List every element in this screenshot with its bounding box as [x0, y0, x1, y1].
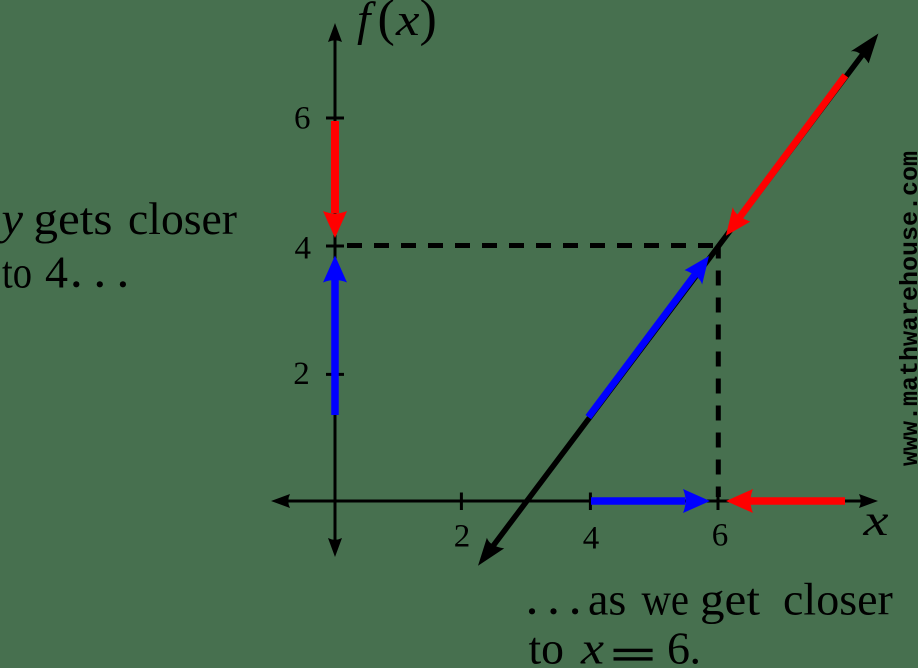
- function line upper-right arrowhead: [851, 34, 879, 64]
- x tick 4: [589, 493, 592, 511]
- red arrow on x-axis (right toward 6): [726, 489, 845, 513]
- svg-text:as: as: [588, 574, 626, 625]
- y tick 2: [326, 373, 344, 376]
- x-axis horizontal line: [286, 500, 863, 503]
- svg-text:we: we: [642, 574, 690, 625]
- dashed line x=6: [716, 248, 721, 498]
- y tick 6: [326, 117, 344, 120]
- x tick 2: [460, 493, 463, 511]
- bottom caption "...as we get closer / to x = 6.": [529, 574, 893, 668]
- red arrow on the line (down-left toward (6,4)): [726, 75, 846, 235]
- svg-text:x: x: [862, 496, 889, 545]
- svg-text:y: y: [0, 193, 24, 244]
- svg-text:6: 6: [712, 518, 729, 554]
- svg-text:x: x: [395, 0, 420, 45]
- svg-text:to: to: [2, 247, 32, 298]
- function line lower-left arrowhead: [478, 538, 504, 566]
- y tick 4: [326, 245, 344, 248]
- svg-text:6: 6: [294, 101, 311, 137]
- dashed line y=4: [347, 243, 717, 248]
- axis title f(x): [357, 0, 437, 47]
- svg-text:(: (: [378, 0, 395, 47]
- blue arrow on the line (up-right toward (6,4)): [588, 256, 709, 417]
- svg-text:2: 2: [293, 356, 310, 392]
- svg-text:gets: gets: [34, 193, 113, 244]
- svg-text:): ): [420, 0, 437, 47]
- svg-text:4: 4: [45, 247, 68, 298]
- svg-text:2: 2: [454, 519, 471, 555]
- svg-text:x: x: [580, 623, 605, 668]
- svg-text:www.mathwarehouse.com: www.mathwarehouse.com: [896, 151, 918, 466]
- svg-text:4: 4: [295, 231, 312, 267]
- blue arrow on x-axis (4 toward 6): [591, 489, 710, 513]
- y-axis f(x) vertical line: [334, 38, 337, 542]
- x-axis left arrowhead: [271, 494, 290, 508]
- left caption "y gets closer / to 4...": [0, 193, 237, 298]
- x-axis right arrowhead: [859, 494, 878, 508]
- y-axis bottom arrowhead: [328, 538, 342, 557]
- x tick 6: [717, 493, 720, 511]
- svg-text:closer: closer: [783, 574, 893, 625]
- svg-text:to: to: [529, 623, 565, 668]
- blue arrow on y-axis (up to 4): [323, 256, 347, 416]
- svg-text:4: 4: [583, 521, 600, 557]
- function line f(x)=(4/3)(x-3): [484, 42, 872, 558]
- svg-text:6: 6: [667, 623, 690, 668]
- svg-text:.: .: [690, 623, 702, 668]
- svg-text:closer: closer: [128, 193, 237, 244]
- svg-text:get: get: [700, 574, 760, 625]
- y-axis top arrowhead: [328, 23, 342, 42]
- red arrow on y-axis (6 down to 4): [323, 121, 347, 238]
